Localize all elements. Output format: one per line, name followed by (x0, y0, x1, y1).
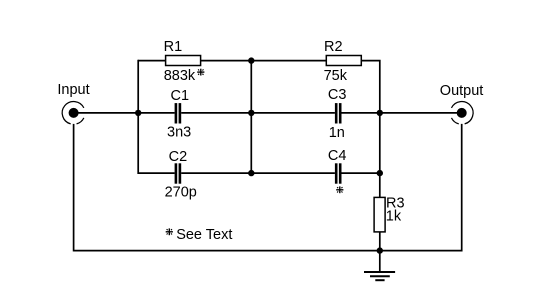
svg-text:1k: 1k (386, 208, 402, 224)
svg-text:C2: C2 (169, 149, 188, 165)
svg-text:883k: 883k (164, 68, 196, 84)
svg-text:1n: 1n (329, 125, 345, 141)
svg-text:R1: R1 (164, 39, 183, 55)
svg-text:Input: Input (57, 82, 89, 98)
svg-text:3n3: 3n3 (167, 125, 191, 141)
svg-text:75k: 75k (324, 68, 348, 84)
svg-text:R2: R2 (324, 39, 343, 55)
svg-text:See Text: See Text (176, 227, 232, 243)
svg-text:C3: C3 (328, 87, 347, 103)
svg-text:Output: Output (440, 83, 484, 99)
svg-text:270p: 270p (165, 185, 197, 201)
svg-text:C4: C4 (328, 148, 347, 164)
svg-text:C1: C1 (171, 88, 190, 104)
